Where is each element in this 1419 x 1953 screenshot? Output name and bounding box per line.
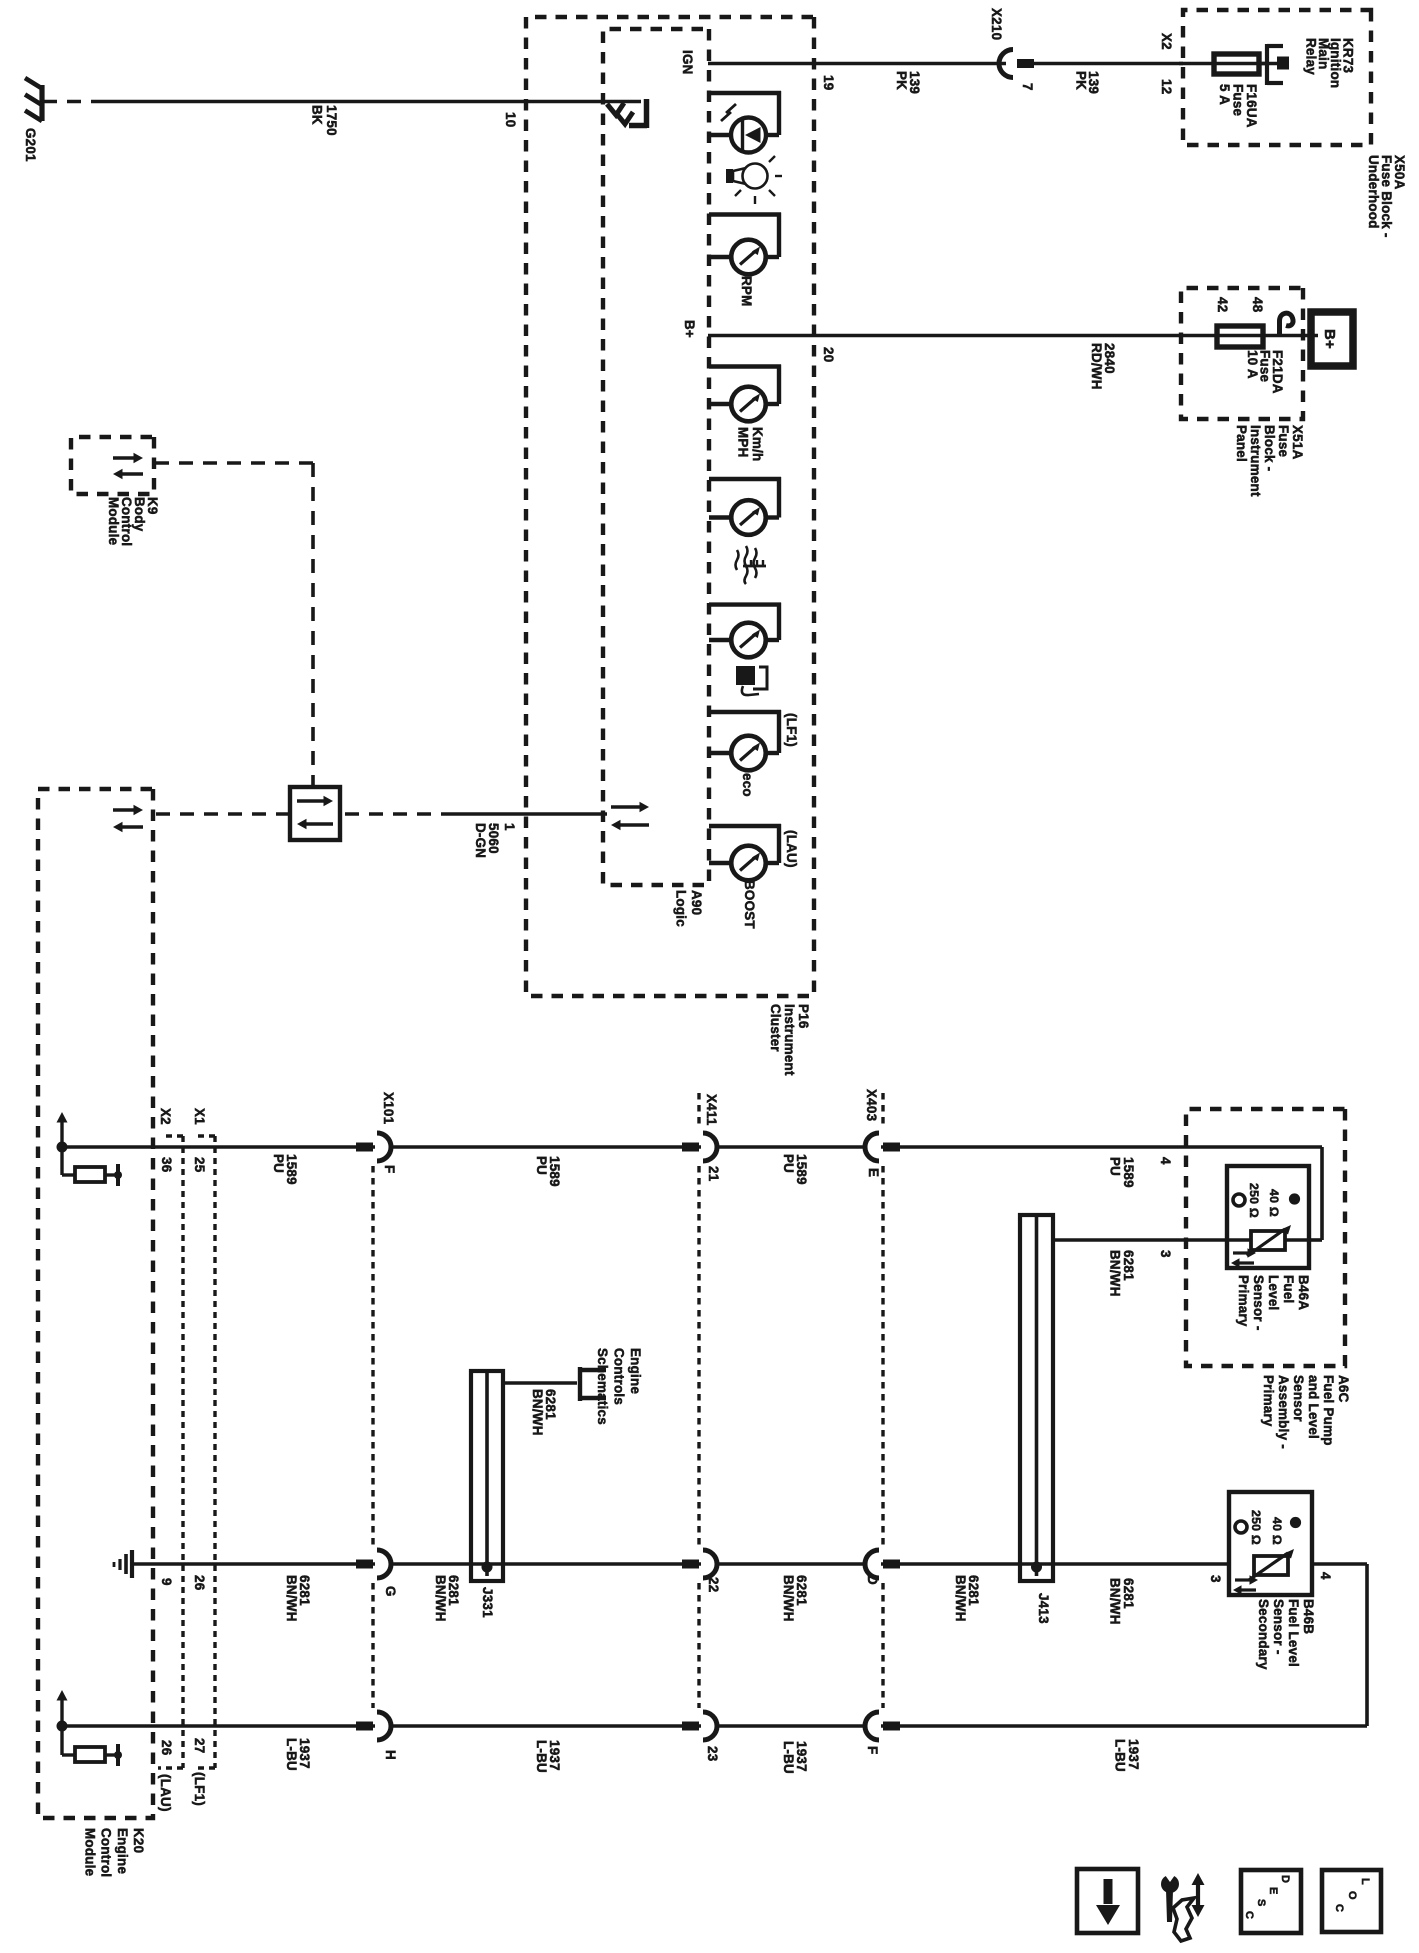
instrument cluster P16 box <box>526 17 814 996</box>
X411 crossing on 6281 <box>701 1561 715 1567</box>
battery B+ terminal box <box>1311 312 1353 366</box>
svg-text:Module: Module <box>82 1828 97 1876</box>
svg-text:X411: X411 <box>704 1094 719 1126</box>
svg-text:BN/WH: BN/WH <box>953 1575 968 1622</box>
svg-text:4: 4 <box>1158 1157 1173 1165</box>
svg-text:1937: 1937 <box>297 1738 312 1769</box>
B46A full-stop dot <box>1289 1193 1300 1204</box>
svg-text:Panel: Panel <box>1234 425 1249 462</box>
svg-text:X403: X403 <box>864 1089 879 1121</box>
svg-text:Block -: Block - <box>1262 425 1277 471</box>
reference terminal 1589 <box>105 1173 117 1176</box>
svg-text:BN/WH: BN/WH <box>781 1575 796 1622</box>
gauge eco <box>709 710 781 714</box>
wire B46B pin4 stub <box>1312 1562 1367 1566</box>
X101 crossing on 6281 <box>375 1561 389 1567</box>
svg-text:IGN: IGN <box>680 50 695 75</box>
svg-text:Fuel Pump: Fuel Pump <box>1321 1375 1336 1446</box>
svg-text:and Level: and Level <box>1306 1375 1321 1439</box>
gauge 4 (temperature) <box>709 477 781 481</box>
svg-text:PU: PU <box>781 1154 796 1173</box>
logic module A90 box <box>603 29 709 885</box>
wire 139 PK upper segment <box>1023 62 1183 66</box>
svg-text:B+: B+ <box>682 320 697 338</box>
svg-text:1750: 1750 <box>324 105 339 136</box>
ECM connector X2 bracket <box>181 1136 184 1768</box>
svg-text:1937: 1937 <box>1126 1739 1141 1770</box>
svg-text:C: C <box>1333 1904 1345 1912</box>
wire 1589 PU top horizontal <box>1320 1147 1324 1240</box>
X403 crossing on 6281 <box>867 1561 881 1567</box>
svg-text:1589: 1589 <box>547 1156 562 1187</box>
engine controls schematics bracket <box>578 1367 582 1401</box>
svg-text:19: 19 <box>821 75 836 90</box>
svg-text:H: H <box>383 1750 398 1760</box>
wire 6281 branch B46A pin3 <box>1051 1238 1227 1242</box>
svg-text:X101: X101 <box>381 1092 396 1125</box>
terminal hook inside P16 <box>644 99 650 128</box>
fuel pump icon <box>736 666 755 685</box>
gauge BOOST <box>709 824 781 828</box>
svg-text:6281: 6281 <box>297 1575 312 1606</box>
wire 5060 D-GN solid <box>455 812 607 816</box>
svg-text:X1: X1 <box>192 1108 207 1125</box>
ECM sense arrow 1937 <box>60 1700 63 1726</box>
svg-text:Level: Level <box>1266 1275 1281 1311</box>
svg-text:20: 20 <box>821 347 836 362</box>
reference terminal 1937 <box>105 1753 117 1756</box>
svg-text:3: 3 <box>1158 1250 1173 1258</box>
wire 1750 BK solid <box>105 100 641 104</box>
svg-text:6281: 6281 <box>446 1575 461 1606</box>
svg-text:3: 3 <box>1208 1575 1223 1583</box>
svg-text:1: 1 <box>502 823 517 831</box>
svg-text:Module: Module <box>106 497 121 545</box>
connector X210 symbol <box>1001 61 1015 67</box>
wire 1589 into B46A <box>1309 1238 1322 1242</box>
ground G201 <box>39 85 44 121</box>
svg-text:K9: K9 <box>145 497 160 515</box>
svg-text:E: E <box>866 1168 881 1177</box>
svg-text:6281: 6281 <box>966 1575 981 1606</box>
wire serial dashed lower <box>156 812 290 816</box>
svg-text:L-BU: L-BU <box>284 1738 299 1771</box>
svg-text:G: G <box>383 1586 398 1597</box>
X403 crossing on 1937 <box>867 1723 881 1729</box>
gauge speedometer <box>709 364 781 368</box>
svg-text:40 Ω: 40 Ω <box>1267 1189 1281 1217</box>
svg-text:B+: B+ <box>1321 329 1338 349</box>
svg-text:36: 36 <box>159 1157 174 1172</box>
svg-text:D-GN: D-GN <box>473 823 488 858</box>
wire 6281 BN/WH vertical <box>132 1562 1229 1566</box>
svg-text:MPH: MPH <box>736 427 751 458</box>
resistor (1589 pull-up) <box>75 1167 105 1182</box>
wire serial dashed upper <box>340 812 455 816</box>
svg-text:2840: 2840 <box>1102 343 1117 374</box>
svg-text:(LF1): (LF1) <box>784 713 799 747</box>
svg-text:9: 9 <box>159 1578 174 1586</box>
svg-text:26: 26 <box>159 1740 174 1755</box>
wire serial dashed to K9 horizontal <box>311 463 315 787</box>
svg-text:250 Ω: 250 Ω <box>1249 1510 1263 1545</box>
svg-text:PU: PU <box>534 1156 549 1175</box>
svg-text:10: 10 <box>503 112 518 127</box>
svg-text:1937: 1937 <box>794 1741 809 1772</box>
relay KR73 contact symbol <box>1267 44 1283 48</box>
temperature icon <box>754 548 757 578</box>
icon box LOC <box>1322 1870 1381 1932</box>
ECM connector X1 bracket <box>213 1136 216 1768</box>
svg-text:Secondary: Secondary <box>1256 1599 1271 1670</box>
svg-text:X2: X2 <box>1159 33 1174 50</box>
svg-text:Fuse Block -: Fuse Block - <box>1379 155 1394 238</box>
svg-text:F: F <box>382 1165 397 1173</box>
svg-text:J331: J331 <box>480 1587 495 1618</box>
svg-text:BN/WH: BN/WH <box>284 1575 299 1622</box>
svg-text:X50A: X50A <box>1392 155 1407 190</box>
svg-text:1589: 1589 <box>794 1154 809 1185</box>
svg-text:48: 48 <box>1250 297 1265 313</box>
fuse feed hook <box>1280 313 1294 335</box>
svg-text:250 Ω: 250 Ω <box>1247 1183 1261 1218</box>
svg-text:Sensor -: Sensor - <box>1251 1275 1266 1331</box>
svg-text:1589: 1589 <box>1121 1157 1136 1188</box>
svg-text:E: E <box>1267 1887 1279 1895</box>
svg-text:F16UA: F16UA <box>1244 84 1259 128</box>
engine control module K20 box <box>38 789 153 1818</box>
svg-text:X51A: X51A <box>1290 425 1305 460</box>
wire 2840 RD/WH from B+ <box>708 334 1318 338</box>
svg-text:BN/WH: BN/WH <box>1108 1578 1123 1625</box>
fuse F21DA <box>1217 326 1263 347</box>
svg-text:Instrument: Instrument <box>1248 425 1263 497</box>
svg-text:B46A: B46A <box>1296 1275 1311 1310</box>
indicator bulb icon <box>743 164 768 189</box>
svg-text:BOOST: BOOST <box>742 880 757 929</box>
A90 serial data arrows <box>611 805 641 808</box>
svg-text:Km/h: Km/h <box>750 427 765 461</box>
svg-text:J413: J413 <box>1036 1593 1051 1624</box>
connector X403 rail <box>881 1093 884 1128</box>
ECM ground symbol 6281 <box>130 1550 134 1578</box>
wire 1750 BK dashed <box>44 100 105 104</box>
svg-text:O: O <box>1346 1891 1358 1900</box>
svg-text:6281: 6281 <box>1121 1578 1136 1609</box>
svg-text:139: 139 <box>907 71 922 94</box>
svg-text:Relay: Relay <box>1304 38 1319 75</box>
svg-text:6281: 6281 <box>1121 1250 1136 1281</box>
svg-text:1937: 1937 <box>547 1740 562 1771</box>
svg-text:S: S <box>1255 1899 1267 1907</box>
K20 serial arrows <box>113 808 135 811</box>
gauge RPM <box>709 212 781 216</box>
svg-text:P16: P16 <box>796 1004 811 1029</box>
svg-text:Primary: Primary <box>1236 1275 1251 1327</box>
svg-text:PK: PK <box>894 71 909 90</box>
splice J413 <box>1020 1215 1053 1581</box>
ECM resistor branch 1589 <box>60 1147 63 1175</box>
svg-text:Fuel: Fuel <box>1281 1275 1296 1304</box>
svg-text:C: C <box>1243 1911 1255 1919</box>
fuel level sensor B46B box <box>1229 1492 1312 1595</box>
B46A empty circle <box>1233 1194 1245 1206</box>
svg-text:7: 7 <box>1020 83 1035 91</box>
svg-text:10 A: 10 A <box>1245 350 1260 379</box>
svg-text:Underhood: Underhood <box>1366 155 1381 229</box>
B46A variable resistor <box>1285 1238 1309 1242</box>
X101 crossing on 1589 <box>375 1144 389 1150</box>
svg-text:RD/WH: RD/WH <box>1089 343 1104 390</box>
B46B float arrows <box>1235 1578 1250 1581</box>
svg-text:BN/WH: BN/WH <box>433 1575 448 1622</box>
svg-text:40 Ω: 40 Ω <box>1270 1517 1284 1545</box>
fuse block X50A box <box>1183 10 1371 145</box>
svg-text:Cluster: Cluster <box>768 1004 783 1052</box>
svg-text:D: D <box>865 1575 880 1585</box>
svg-text:Schematics: Schematics <box>595 1348 610 1425</box>
svg-text:Fuel Level: Fuel Level <box>1286 1599 1301 1667</box>
svg-text:23: 23 <box>705 1746 720 1761</box>
svg-text:1589: 1589 <box>284 1154 299 1185</box>
ECM junction node 1937 <box>57 1721 68 1732</box>
fuse F16UA <box>1179 62 1267 66</box>
svg-text:21: 21 <box>706 1166 721 1182</box>
X411 crossing on 1937 <box>701 1723 715 1729</box>
svg-text:eco: eco <box>740 773 755 797</box>
icon box down arrow <box>1077 1869 1138 1933</box>
svg-text:Control: Control <box>119 497 134 546</box>
svg-text:Fuse: Fuse <box>1276 425 1291 457</box>
svg-text:K20: K20 <box>131 1828 146 1853</box>
svg-text:PK: PK <box>1074 71 1089 90</box>
svg-text:BN/WH: BN/WH <box>530 1389 545 1436</box>
B46B full-stop dot <box>1290 1517 1301 1528</box>
B46B variable resistor <box>1254 1556 1288 1575</box>
svg-text:PU: PU <box>271 1154 286 1173</box>
svg-text:L-BU: L-BU <box>1113 1739 1128 1772</box>
svg-text:X210: X210 <box>989 8 1004 40</box>
svg-text:A6C: A6C <box>1336 1375 1351 1403</box>
svg-text:L-BU: L-BU <box>781 1741 796 1774</box>
X101 crossing on 1937 <box>375 1723 389 1729</box>
B46A float arrows <box>1233 1251 1248 1254</box>
svg-text:BN/WH: BN/WH <box>1108 1250 1123 1297</box>
svg-text:(LF1): (LF1) <box>192 1772 207 1806</box>
svg-text:(LAU): (LAU) <box>784 830 799 868</box>
svg-text:G201: G201 <box>23 128 38 162</box>
svg-text:Primary: Primary <box>1261 1375 1276 1427</box>
wire 6281 branch to engine controls <box>501 1381 577 1385</box>
resistor (1937 pull-up) <box>75 1747 105 1762</box>
svg-text:5060: 5060 <box>486 823 501 854</box>
serial data gateway box <box>290 787 340 840</box>
ECM resistor branch 1937 <box>60 1726 63 1755</box>
icon wiring repair <box>1196 1884 1200 1906</box>
svg-text:Fuse: Fuse <box>1231 84 1246 116</box>
B46B empty circle <box>1235 1521 1247 1533</box>
svg-text:Body: Body <box>132 497 147 532</box>
X411 crossing on 1589 <box>701 1144 715 1150</box>
svg-text:Engine: Engine <box>115 1828 130 1874</box>
svg-text:Assembly -: Assembly - <box>1276 1375 1291 1449</box>
K9 serial arrows <box>113 456 135 459</box>
svg-text:Sensor: Sensor <box>1291 1375 1306 1422</box>
svg-text:RPM: RPM <box>739 276 754 307</box>
svg-text:6281: 6281 <box>794 1575 809 1606</box>
wire 1589 PU vertical <box>62 1145 1322 1149</box>
svg-text:42: 42 <box>1215 297 1230 312</box>
svg-text:5 A: 5 A <box>1217 84 1232 105</box>
svg-text:A90: A90 <box>689 890 704 915</box>
ECM sense arrow 1589 <box>60 1122 63 1147</box>
wire 1937 top horizontal <box>1365 1564 1369 1726</box>
svg-text:Controls: Controls <box>612 1348 627 1405</box>
wire 139 PK lower segment <box>708 62 1006 66</box>
ECM junction node 1589 <box>57 1142 68 1153</box>
svg-text:26: 26 <box>192 1575 207 1590</box>
gauge fuel <box>709 602 781 606</box>
svg-text:22: 22 <box>706 1577 721 1592</box>
svg-text:27: 27 <box>192 1738 207 1753</box>
fuel pump assembly A6C box <box>1186 1109 1345 1366</box>
svg-text:(LAU): (LAU) <box>158 1774 173 1812</box>
svg-text:F: F <box>865 1746 880 1754</box>
svg-text:6281: 6281 <box>543 1389 558 1420</box>
svg-text:4: 4 <box>1318 1572 1333 1580</box>
svg-text:Control: Control <box>99 1828 114 1877</box>
svg-text:X2: X2 <box>158 1108 173 1125</box>
svg-text:Logic: Logic <box>674 890 689 927</box>
svg-text:B46B: B46B <box>1301 1599 1316 1634</box>
splice J331 <box>471 1371 503 1581</box>
svg-text:12: 12 <box>1159 79 1174 94</box>
svg-text:L-BU: L-BU <box>534 1740 549 1773</box>
svg-text:Sensor -: Sensor - <box>1271 1599 1286 1655</box>
fuse block X51A box <box>1181 288 1303 419</box>
connector X411 rail <box>697 1093 700 1128</box>
icon box DESC <box>1241 1870 1301 1933</box>
gateway arrows <box>297 799 325 802</box>
body control module K9 box <box>71 437 154 494</box>
connector X101 rail <box>371 1166 374 1546</box>
indicator LED <box>709 91 781 95</box>
fuel level sensor B46A box <box>1227 1166 1309 1268</box>
wire 1937 L-BU vertical <box>62 1724 1367 1728</box>
svg-text:25: 25 <box>192 1157 207 1173</box>
svg-text:PU: PU <box>1108 1157 1123 1176</box>
svg-text:D: D <box>1279 1875 1291 1883</box>
wire serial dashed to K9 vertical <box>154 461 313 465</box>
svg-text:Engine: Engine <box>628 1348 643 1394</box>
svg-text:BK: BK <box>310 105 325 125</box>
X403 crossing on 1589 <box>867 1144 881 1150</box>
svg-text:L: L <box>1359 1878 1371 1885</box>
svg-text:Instrument: Instrument <box>782 1004 797 1076</box>
